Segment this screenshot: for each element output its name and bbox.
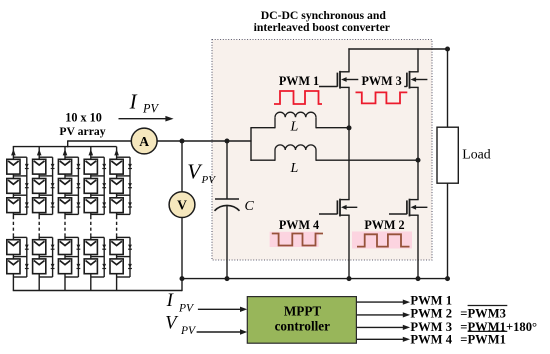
svg-text:PWM 3: PWM 3 bbox=[361, 74, 401, 88]
svg-text:PWM 1: PWM 1 bbox=[279, 74, 319, 88]
svg-text:C: C bbox=[245, 199, 255, 214]
PV string column 1 bbox=[7, 147, 29, 291]
inductor L1 left lead bbox=[250, 127, 275, 129]
overline for PWM 4 equation bbox=[468, 330, 508, 332]
waveform PWM 1 (red) bbox=[274, 91, 322, 104]
svg-text:PV array: PV array bbox=[59, 125, 105, 138]
capacitor C top plate bbox=[215, 198, 239, 200]
MPPT controller box bbox=[247, 297, 356, 344]
ammeter A bbox=[131, 128, 157, 154]
wire: load branch upper bbox=[447, 49, 449, 127]
converter boundary dotted box bbox=[212, 40, 432, 261]
waveform PWM 4 (dark red) bbox=[272, 234, 323, 246]
node: voltmeter tap on input bus bbox=[180, 139, 185, 144]
transistor Q2 (PWM 2) bbox=[389, 199, 427, 217]
wire: ammeter to converter input bus bbox=[157, 140, 252, 142]
svg-text:A: A bbox=[139, 134, 149, 149]
svg-text:V: V bbox=[177, 198, 187, 213]
transistor Q1 (PWM 1) bbox=[319, 71, 358, 89]
PV string column 5 bbox=[110, 147, 132, 291]
inductor L2 right lead to phase node 2 bbox=[316, 159, 418, 161]
PV string column 4 bbox=[84, 147, 106, 291]
svg-text:L: L bbox=[290, 120, 299, 135]
wire: Q1 source to phase node 1 bbox=[348, 87, 350, 128]
wire: voltmeter branch upper bbox=[181, 141, 183, 192]
node: phase 2 junction bbox=[416, 158, 421, 163]
svg-text:interleaved boost converter: interleaved boost converter bbox=[254, 21, 390, 34]
svg-text:=PWM1: =PWM1 bbox=[460, 333, 506, 347]
capacitor C curved plate bbox=[215, 205, 240, 210]
svg-text:controller: controller bbox=[275, 319, 331, 334]
svg-text:PV: PV bbox=[180, 325, 197, 337]
inductor L1 bbox=[274, 117, 276, 128]
arrow: V_PV into MPPT bbox=[197, 331, 242, 333]
node: phase 1 junction bbox=[347, 125, 352, 130]
wire: Q3 drain riser bbox=[417, 48, 419, 71]
svg-text:PWM 2: PWM 2 bbox=[364, 218, 404, 232]
svg-text:PWM 4: PWM 4 bbox=[279, 218, 319, 232]
svg-text:PWM 1: PWM 1 bbox=[410, 293, 452, 307]
node: capacitor tap on input bus bbox=[225, 139, 230, 144]
arrow: I_PV current direction bbox=[119, 118, 168, 120]
arrow: I_PV into MPPT bbox=[198, 308, 242, 310]
wire: load branch lower bbox=[447, 183, 449, 278]
wire: voltmeter branch lower bbox=[181, 217, 183, 278]
node: return bus / capacitor bbox=[225, 276, 230, 281]
voltmeter V bbox=[169, 192, 195, 218]
overline for PWM 2 equation bbox=[468, 305, 508, 307]
wire: bus from riser to ammeter bbox=[68, 140, 132, 142]
wire: capacitor branch upper bbox=[226, 141, 228, 199]
waveform PWM 3 (red) bbox=[356, 92, 408, 103]
wire: phase node 1 to Q4 drain bbox=[348, 128, 350, 200]
svg-text:PV: PV bbox=[201, 174, 217, 186]
PV string column 2 bbox=[33, 147, 55, 291]
node: return bus / load bbox=[445, 276, 450, 281]
arrow: MPPT output PWM 3 bbox=[357, 326, 405, 328]
transistor Q3 (PWM 3) bbox=[404, 71, 427, 89]
node: top rail to load junction bbox=[445, 47, 450, 52]
wire: capacitor branch lower bbox=[226, 205, 228, 278]
waveform PWM 2 highlight band bbox=[352, 232, 412, 249]
svg-text:Load: Load bbox=[462, 147, 490, 162]
wire: phase node 2 to Q2 drain bbox=[417, 160, 419, 200]
wire: Q2 source to return bus bbox=[417, 215, 419, 278]
svg-text:PWM 4: PWM 4 bbox=[410, 333, 452, 347]
svg-text:PV: PV bbox=[142, 102, 159, 116]
inductor L1 right lead to phase node 1 bbox=[316, 127, 349, 129]
wire: array bottom riser to main return bus bbox=[181, 279, 183, 292]
PV string column 3 bbox=[58, 147, 80, 291]
waveform PWM 2 (dark red) bbox=[357, 234, 410, 246]
arrow: MPPT output PWM 1 bbox=[357, 301, 405, 303]
load resistor bbox=[437, 127, 458, 183]
svg-text:PWM 2: PWM 2 bbox=[410, 307, 452, 321]
wire: Q3 source to phase node 2 bbox=[417, 87, 419, 160]
wire: array bottom bus bbox=[13, 290, 182, 292]
arrow: MPPT output PWM 4 bbox=[357, 338, 405, 340]
arrow: MPPT output PWM 2 bbox=[357, 314, 405, 316]
waveform PWM 4 highlight band bbox=[270, 232, 319, 247]
wire: Q1 drain riser bbox=[348, 48, 350, 71]
inductor L2 bbox=[274, 150, 276, 161]
transistor Q4 (PWM 4) bbox=[319, 199, 357, 217]
wire: PV array top bus bbox=[13, 146, 117, 148]
svg-text:10 x 10: 10 x 10 bbox=[65, 111, 102, 125]
node: return bus / Q2 source bbox=[416, 276, 421, 281]
wire: riser from array bus to ammeter wire bbox=[67, 140, 69, 147]
wire: Q4 source to return bus bbox=[348, 215, 350, 278]
inductor L2 left lead bbox=[250, 159, 275, 161]
svg-text:MPPT: MPPT bbox=[284, 303, 322, 318]
wire: input bus to inductor junction bar bbox=[250, 128, 252, 161]
svg-text:L: L bbox=[290, 161, 299, 176]
svg-text:=PWM3: =PWM3 bbox=[460, 307, 506, 321]
wire: top rail bbox=[348, 48, 448, 50]
svg-text:PV: PV bbox=[178, 303, 195, 315]
wire: bottom return bus bbox=[182, 278, 448, 280]
svg-text:I: I bbox=[129, 90, 138, 114]
node: return bus / voltmeter bbox=[180, 276, 185, 281]
node: return bus / Q4 source bbox=[347, 276, 352, 281]
